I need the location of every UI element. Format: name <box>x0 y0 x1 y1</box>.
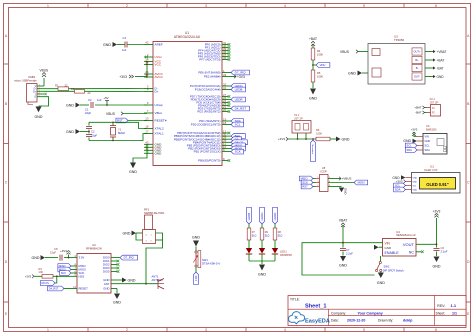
U3 pin B- <box>412 64 422 71</box>
svg-text:PF7 (ADC7/TDI): PF7 (ADC7/TDI) <box>199 58 220 62</box>
connector U5 ICSP body <box>320 175 329 192</box>
svg-text:D4_RST: D4_RST <box>49 288 59 291</box>
wire <box>248 240 250 248</box>
power VBUS at USB <box>43 78 45 86</box>
net flag VDiv <box>316 63 330 68</box>
svg-text:SCK: SCK <box>235 150 241 154</box>
svg-text:SCL: SCL <box>407 144 413 148</box>
svg-text:R1: R1 <box>55 83 59 87</box>
svg-text:C2: C2 <box>88 98 92 102</box>
svg-text:1.1: 1.1 <box>451 303 457 308</box>
svg-text:GND: GND <box>403 139 411 143</box>
U5 pin 2 +VBUS <box>328 178 341 180</box>
wire UCap <box>80 104 89 106</box>
svg-text:22pF: 22pF <box>91 133 97 137</box>
ground U1 <box>130 163 136 169</box>
resistor R4 100K <box>311 48 315 60</box>
U1 pin 2 UVcc <box>144 56 153 58</box>
svg-text:GND: GND <box>377 281 385 285</box>
IC1 pin SCL <box>406 185 412 187</box>
svg-text:Sheet:: Sheet: <box>436 312 446 316</box>
net flag D9 <box>228 138 231 140</box>
X1.1 wires <box>297 133 299 139</box>
svg-text:VBUS: VBUS <box>340 50 350 54</box>
svg-text:D+: D+ <box>155 90 159 94</box>
svg-text:IC1: IC1 <box>430 164 435 168</box>
capacitor C2b 22pF <box>88 132 90 134</box>
svg-text:LED1: LED1 <box>280 249 287 253</box>
net flag SCK <box>228 151 231 153</box>
svg-text:RESET: RESET <box>79 287 89 291</box>
net flag MISO <box>228 144 231 146</box>
power +3V3 at IC1 <box>404 180 406 184</box>
svg-text:U5: U5 <box>322 166 326 170</box>
svg-text:GND: GND <box>103 287 109 291</box>
U1 pin 16 XTAL2 <box>144 128 153 130</box>
U1 pin 4 D+ <box>144 91 153 93</box>
net flag SDA <box>405 148 417 153</box>
svg-text:36: 36 <box>223 56 227 60</box>
svg-text:DIO5: DIO5 <box>103 270 110 274</box>
svg-text:1: 1 <box>47 4 49 8</box>
U1 pin 5 GND <box>144 152 153 154</box>
ic U6 BME280 body <box>423 134 447 155</box>
ground at R6 <box>336 137 341 142</box>
svg-text:GND: GND <box>123 231 131 235</box>
net flag RST <box>128 120 147 122</box>
capacitor C8 15pF <box>60 255 62 261</box>
wire <box>261 224 263 228</box>
svg-text:R5: R5 <box>317 71 321 75</box>
wire LED common <box>249 260 275 262</box>
U1 pin 21 PD3 (TXD1/INT3) <box>222 108 228 110</box>
ground at C8 <box>41 255 46 260</box>
U1 pin 25 PD4(ICP1/ADC8) <box>222 105 228 107</box>
power net GND <box>433 75 436 78</box>
svg-text:18: 18 <box>223 121 227 125</box>
U1 pin 12 PB7(PCINT7/OC0A/OC1C/RTS#) <box>222 132 228 134</box>
USB1 pin 3 D+ <box>37 90 44 92</box>
svg-text:100K: 100K <box>316 131 322 135</box>
capacitor C1 22pF <box>88 122 90 125</box>
resistor R7 51 <box>247 228 251 240</box>
svg-text:OLED 0.91": OLED 0.91" <box>426 182 448 187</box>
svg-text:BME280: BME280 <box>426 128 437 132</box>
svg-text:VOUT: VOUT <box>403 242 415 247</box>
U5 pin 1 MISO <box>316 178 320 180</box>
U1 pin 1 PE6 (INT.6/AIN0) <box>222 72 228 74</box>
net flag SCL <box>228 124 231 126</box>
svg-text:8MHz: 8MHz <box>118 131 126 135</box>
net flag SCL at IC1 <box>394 183 406 188</box>
wire <box>248 254 250 261</box>
ic U2 RFM69HCW body <box>77 254 111 294</box>
svg-text:UVcc: UVcc <box>155 55 163 59</box>
USB1 pin 4 I <box>37 93 44 95</box>
U1 pin 31 PC6(OC3A/OC4A#) <box>222 89 228 91</box>
svg-text:51Ω: 51Ω <box>278 234 283 237</box>
svg-text:C4: C4 <box>123 36 127 40</box>
U1 pin 37 PF6 (ADC6/TDO) <box>222 56 228 58</box>
USB1 pin 5 G <box>37 96 44 98</box>
svg-text:B-: B- <box>416 66 419 70</box>
svg-text:GND: GND <box>258 273 266 277</box>
U5 pin 3 SCK <box>316 182 320 184</box>
capacitor C7 2.2uF <box>342 243 344 248</box>
svg-text:SDA: SDA <box>407 148 413 152</box>
U4 NC xmark <box>416 251 421 253</box>
svg-text:VIN: VIN <box>425 135 429 139</box>
svg-text:JST 2P: JST 2P <box>430 100 439 104</box>
ground USB <box>39 97 49 106</box>
antenna module RF1 body <box>145 215 153 230</box>
power -BAT at X2.1 <box>423 111 425 114</box>
svg-text:G: G <box>34 96 36 99</box>
svg-text:SW2: SW2 <box>384 265 390 269</box>
svg-text:GND: GND <box>339 264 347 268</box>
capacitor C2 1uF <box>91 102 93 108</box>
U1 pin 7 VBus <box>144 112 153 114</box>
U6 pin GND <box>417 140 423 142</box>
U1 pin 27 PD7 (T0/OC4D/ADC10) <box>222 96 228 98</box>
net flag D4_RST <box>48 286 64 291</box>
U1 pin 8 PB0(SS/PCINT0) <box>222 160 228 162</box>
power +3V3 at U2 <box>68 257 70 259</box>
svg-text:+3V3: +3V3 <box>119 75 127 79</box>
svg-text:C6: C6 <box>441 246 445 250</box>
wire D+ <box>44 90 75 92</box>
svg-text:ATMEGA32U4-AU: ATMEGA32U4-AU <box>174 35 201 39</box>
ic U1 ATMEGA32U4-AU body <box>153 42 222 166</box>
svg-text:R4: R4 <box>317 49 321 53</box>
ic U3 TP4056 body <box>368 44 425 85</box>
svg-text:SDA: SDA <box>413 189 418 192</box>
net flag MOSI at U2 <box>58 267 71 272</box>
svg-text:GND: GND <box>66 103 74 107</box>
ground U2 bottom <box>116 289 118 294</box>
svg-text:GND: GND <box>309 97 317 101</box>
wire D- cont <box>69 88 145 90</box>
wire XTAL1 net <box>89 134 147 141</box>
svg-text:R3: R3 <box>39 267 43 271</box>
U6 pin SDA <box>417 149 423 151</box>
svg-text:DIP SPDT Switch: DIP SPDT Switch <box>383 268 404 272</box>
U5 pin 6 GND <box>328 186 342 188</box>
wire <box>274 224 276 228</box>
svg-text:OUT-: OUT- <box>414 75 420 79</box>
svg-text:5: 5 <box>363 328 365 332</box>
U5 pin 5 RST <box>316 186 320 188</box>
svg-text:PD0 (OC0B/SCL/INT0): PD0 (OC0B/SCL/INT0) <box>191 123 221 127</box>
svg-text:U6: U6 <box>426 124 430 128</box>
svg-text:2.2uF: 2.2uF <box>441 249 448 253</box>
svg-text:GND: GND <box>192 236 200 240</box>
svg-text:1uF: 1uF <box>122 49 127 52</box>
svg-text:RST: RST <box>302 185 308 189</box>
USB1 shield <box>28 102 33 105</box>
svg-text:GND: GND <box>155 151 163 155</box>
svg-text:DTSA-K9K-5-V: DTSA-K9K-5-V <box>202 261 220 265</box>
wire U1 GND bus <box>133 144 147 162</box>
net flag D8 CS <box>228 141 231 143</box>
resistor R2 22 <box>75 90 85 94</box>
svg-text:GND: GND <box>344 188 348 194</box>
svg-text:4: 4 <box>284 328 286 332</box>
svg-text:GND: GND <box>35 115 43 119</box>
U1 pin 11 PB3 (PDO/PCINT3/MISO) <box>222 144 228 146</box>
net flag RST at SW1 <box>195 267 197 272</box>
ground divider <box>310 89 316 95</box>
svg-text:D4_RST: D4_RST <box>235 107 247 111</box>
svg-text:REV:: REV: <box>437 304 445 308</box>
power +3V3 at U4 <box>435 214 439 218</box>
U3 pin B+ <box>412 56 422 63</box>
svg-text:SDA: SDA <box>395 188 401 192</box>
net flag SCL <box>405 143 417 148</box>
svg-text:100K: 100K <box>317 74 323 78</box>
svg-text:+3V3: +3V3 <box>25 275 32 279</box>
U1 pin 42 AREF <box>144 44 153 46</box>
U2 pin 7 MOSI <box>71 269 77 271</box>
U2 pin 2 3.3V <box>71 257 77 259</box>
RF1 wires <box>136 232 143 234</box>
wire D+ cont <box>85 90 145 92</box>
svg-text:Company:: Company: <box>331 311 346 315</box>
wire <box>330 138 336 140</box>
U1 pin 22 PD5 (XCK1/CTS#) <box>222 102 228 104</box>
wire 3.3V U2 <box>45 257 58 259</box>
ground U2 right <box>117 279 122 281</box>
U2 pin DIO5 <box>111 271 117 273</box>
ic U4 SE5218ALG-LF body <box>383 239 417 257</box>
U1 pin 13 RESET# <box>144 120 153 122</box>
U1 pin 41 PF0 (ADC0) <box>222 44 228 46</box>
svg-text:2: 2 <box>126 4 128 8</box>
svg-text:Drawn By:: Drawn By: <box>378 319 393 323</box>
svg-text:1uF: 1uF <box>97 98 102 102</box>
ground at C6 <box>434 257 440 263</box>
svg-text:GND: GND <box>413 182 418 184</box>
svg-text:SCK: SCK <box>61 272 66 275</box>
svg-text:GND: GND <box>66 130 74 134</box>
no-connect USB ID <box>44 93 46 95</box>
net flag D7_IRQ <box>228 72 231 74</box>
svg-text:+VBAT: +VBAT <box>437 50 447 54</box>
wire VCC bus <box>146 62 148 78</box>
svg-text:SCL: SCL <box>235 123 241 127</box>
USB1 pin 1 V <box>37 85 44 87</box>
svg-text:+3V3: +3V3 <box>237 75 245 79</box>
wire NSS <box>53 275 71 277</box>
svg-text:RESET#: RESET# <box>155 119 167 123</box>
svg-text:PD2 (RXD1/INT2): PD2 (RXD1/INT2) <box>197 110 220 114</box>
IC1 pin SDA <box>406 189 412 191</box>
svg-text:VBAT: VBAT <box>339 219 347 223</box>
U1 pin 24 AVCC <box>144 73 153 75</box>
svg-text:+3V3: +3V3 <box>60 249 67 253</box>
svg-text:PB1 (PCINT1/SCLK): PB1 (PCINT1/SCLK) <box>194 150 221 154</box>
LED LEDB <box>246 248 252 254</box>
svg-text:ENABLE: ENABLE <box>385 251 400 255</box>
svg-text:1: 1 <box>47 328 49 332</box>
U1 pin 38 PF5 (ADC5/TMS) <box>222 53 228 55</box>
svg-text:+BAT: +BAT <box>437 58 445 62</box>
net flag D7_IRQ at U2 <box>117 257 120 259</box>
U1 pin 26 PD6(T1/OC4D#/ADC9) <box>222 99 228 101</box>
svg-text:RST: RST <box>194 276 198 282</box>
svg-text:+BAT: +BAT <box>309 37 317 41</box>
LED LEDG <box>259 248 265 254</box>
svg-text:15pF: 15pF <box>50 251 56 255</box>
svg-text:+5V: +5V <box>103 96 108 100</box>
svg-text:RFM69HCW: RFM69HCW <box>86 247 102 251</box>
U1 pin 19 PD1 (SDA/INT1) <box>222 120 228 122</box>
svg-text:Thermistor: Thermistor <box>311 144 314 155</box>
svg-text:4: 4 <box>284 4 286 8</box>
U3 pin OUT- <box>412 73 422 80</box>
OLED yellow screen <box>420 178 456 190</box>
net flag MOSI <box>228 148 231 150</box>
net flag LEDB <box>247 207 252 224</box>
svg-text:SW1: SW1 <box>202 258 208 262</box>
svg-text:51Ω: 51Ω <box>265 234 270 237</box>
svg-text:22pF: 22pF <box>85 111 91 115</box>
svg-text:B+: B+ <box>415 58 419 62</box>
resistor R1 22 <box>58 87 69 91</box>
svg-text:+3V3: +3V3 <box>433 209 441 213</box>
U1 pin 40 PF1 (ADC1) <box>222 47 228 49</box>
ground crystal <box>80 131 89 133</box>
wire <box>261 254 263 261</box>
svg-text:OLED 0.91'': OLED 0.91'' <box>424 168 439 172</box>
svg-text:+VBUS: +VBUS <box>342 177 352 181</box>
power net +3V3 <box>228 76 236 78</box>
svg-text:SDA: SDA <box>425 148 431 152</box>
resistor R8 51 <box>273 228 277 240</box>
svg-text:Date:: Date: <box>331 319 339 323</box>
title block <box>288 296 466 326</box>
svg-text:VCC: VCC <box>155 63 162 67</box>
svg-text:GND: GND <box>113 300 121 304</box>
switch SW2 DIP SPDT Switch <box>380 256 382 261</box>
svg-text:100K: 100K <box>317 52 323 56</box>
U1 pin 28 PB4(PCINT4/ADC11) <box>222 141 228 143</box>
svg-text:ICSP: ICSP <box>320 170 326 174</box>
svg-text:-BAT: -BAT <box>415 111 422 115</box>
X2.1 wires <box>427 108 431 113</box>
wire <box>312 60 314 70</box>
net flag D4_RST <box>228 108 231 110</box>
U3 pin OUT+ <box>412 48 422 55</box>
resistor R5 100K <box>311 70 315 82</box>
svg-text:R2: R2 <box>71 87 75 91</box>
ground at AREF <box>113 42 118 47</box>
wire AREF <box>117 44 125 46</box>
svg-text:6: 6 <box>435 4 437 8</box>
svg-text:5: 5 <box>363 4 365 8</box>
svg-text:1/1: 1/1 <box>452 312 457 316</box>
svg-text:51Ω: 51Ω <box>252 234 257 237</box>
svg-text:SW868-KE-P001: SW868-KE-P001 <box>144 211 165 215</box>
svg-text:GND: GND <box>433 265 441 269</box>
wire D- <box>44 88 58 90</box>
ground at C7 <box>340 256 346 262</box>
svg-text:20: 20 <box>223 108 227 112</box>
power +3V3 at X1.1 <box>286 137 288 141</box>
ground at RF1 <box>132 231 137 236</box>
wire <box>312 82 314 88</box>
svg-text:TP4056: TP4056 <box>394 38 405 42</box>
ground LEDs <box>259 265 265 271</box>
svg-text:LEDR: LEDR <box>273 213 277 221</box>
svg-text:LEDR: LEDR <box>235 98 244 102</box>
svg-text:VDA: VDA <box>413 177 418 180</box>
svg-text:2: 2 <box>126 328 128 332</box>
U2 pin 8 MISO <box>71 265 77 267</box>
capacitor C4 <box>125 42 127 48</box>
svg-text:NSS: NSS <box>79 274 85 278</box>
ic IC1 OLED body <box>412 173 461 194</box>
svg-text:AREF: AREF <box>155 43 163 47</box>
svg-text:GND: GND <box>128 278 136 282</box>
capacitor C6 2.2uF <box>434 249 440 251</box>
USB1 pin 2 D- <box>37 88 44 90</box>
svg-text:+BAT: +BAT <box>414 106 421 110</box>
svg-text:6: 6 <box>435 328 437 332</box>
net flag D8 CS <box>55 276 57 283</box>
U1 pin 39 PF4 (ADC4/TCK) <box>222 50 228 52</box>
net flag LEDR <box>228 99 231 101</box>
U1 pin 3 D- <box>144 88 153 90</box>
svg-text:VDiv: VDiv <box>320 63 327 67</box>
U2 pin GND <box>111 288 117 290</box>
U1 pin 6 UCap <box>144 104 153 106</box>
svg-text:D8 CS: D8 CS <box>41 282 49 285</box>
ground at UCap <box>76 103 81 108</box>
svg-text:JST 2P: JST 2P <box>294 116 303 120</box>
crystal Y1 8MHz <box>112 122 114 125</box>
svg-text:VBUS: VBUS <box>106 112 116 116</box>
ground at U6 <box>413 139 418 143</box>
svg-text:31: 31 <box>223 86 227 90</box>
wire XTAL2 net <box>89 122 147 128</box>
U1 pin 35 GND <box>144 149 153 151</box>
net flag Thermistor <box>311 140 316 162</box>
svg-text:2020-12-20: 2020-12-20 <box>347 319 365 323</box>
svg-text:SCL: SCL <box>425 144 431 148</box>
svg-text:C8: C8 <box>54 247 58 251</box>
ground at IC1 <box>401 175 406 179</box>
no-connect UVcc <box>145 56 148 59</box>
net flag LEDG <box>260 207 265 224</box>
svg-text:10K: 10K <box>39 270 44 274</box>
U1 pin 10 PB2 (PDI/PCINT2/MOSI) <box>222 148 228 150</box>
svg-text:GND: GND <box>385 246 393 250</box>
U1 pin 43 GND <box>144 143 153 145</box>
U2 pin 13 RESET <box>71 288 77 290</box>
U6 pin SCL <box>417 145 423 147</box>
U1 pin 14 VCC <box>144 61 153 63</box>
wire <box>274 254 276 261</box>
power +3V3 at U6 <box>414 132 417 137</box>
U5 pin 4 MOSI <box>328 182 354 184</box>
svg-text:+3V3: +3V3 <box>411 128 418 132</box>
svg-text:GND: GND <box>103 43 111 47</box>
svg-text:GND: GND <box>32 256 40 260</box>
svg-text:AVCC: AVCC <box>155 75 164 79</box>
svg-text:UCap: UCap <box>155 103 163 107</box>
net flag LEDR <box>273 207 278 224</box>
